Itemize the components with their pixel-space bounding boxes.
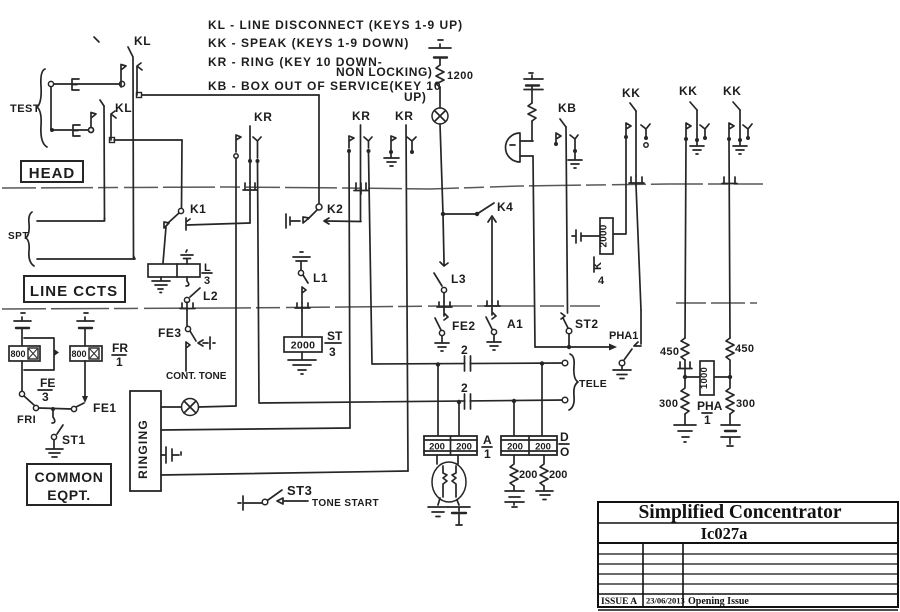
ground under relay L3: [152, 277, 170, 293]
relay FR coil box with 800: [70, 346, 102, 361]
K2 arm: [308, 210, 317, 219]
wire: K4 junction to pivot: [443, 213, 477, 215]
svg-text:KB: KB: [558, 101, 577, 115]
svg-text:23/06/2013: 23/06/2013: [646, 596, 685, 606]
RINGING box: [130, 391, 161, 491]
svg-text:1200: 1200: [447, 70, 473, 82]
svg-text:FRI: FRI: [17, 414, 36, 426]
svg-text:2: 2: [461, 343, 468, 357]
svg-text:D: D: [560, 430, 569, 444]
svg-text:200: 200: [549, 469, 567, 481]
wire: lamp to KR1 left stem: [199, 406, 237, 407]
key KK3 right arrow contact: [743, 124, 752, 137]
wire: test vertical joining pair: [50, 87, 52, 130]
wire: KK2 left stem long down (left divider): [685, 141, 686, 338]
svg-text:KK: KK: [622, 86, 641, 100]
key PHA1 pivot: [619, 360, 625, 366]
resistor 450 right: [726, 338, 734, 377]
key KR1 main stem: [249, 126, 251, 183]
transformer / tube under relay A: [432, 455, 466, 502]
K1 pivot: [178, 208, 183, 213]
key PHA1 contact from above: [634, 310, 641, 346]
bell terminals: [520, 141, 533, 156]
svg-text:450: 450: [735, 343, 754, 355]
svg-text:200: 200: [507, 442, 523, 453]
relay FE coil box with 800: [9, 346, 40, 361]
svg-text:EQPT.: EQPT.: [47, 487, 90, 503]
label A/1: [482, 433, 492, 461]
wire: left divider to right divider through PHA/1: [685, 376, 730, 378]
label K/4 (vertical): [592, 257, 605, 287]
wire: K1 left contact down to relay L3: [163, 227, 166, 263]
ground under FE2: [435, 336, 449, 351]
svg-text:Ic027a: Ic027a: [701, 524, 748, 543]
FE3 arm: [190, 331, 196, 341]
contact bar A1 on lower bus: [485, 301, 500, 309]
svg-text:PHA1: PHA1: [609, 330, 638, 342]
wire: KR1 main down to K1 wire: [249, 194, 251, 223]
svg-text:1: 1: [704, 413, 711, 427]
key KK3 left flag contact: [729, 123, 734, 137]
K1 arm: [168, 213, 179, 223]
brace TELE: [569, 354, 578, 410]
contact bar KK1 on upper bus: [629, 176, 644, 185]
wire: KK1 main down to PHA1 contact: [636, 185, 641, 310]
ST3 right contact arrow: [277, 498, 308, 504]
contact bar L3 on lower bus: [437, 302, 452, 310]
ground above L3 right cell: [181, 250, 193, 264]
wire: FE relay to FRI switch: [21, 361, 23, 391]
ground under KK3 main: [733, 141, 747, 154]
battery under transformer right leg: [448, 500, 470, 511]
wire: KR1 left stem long down to lamp wire: [235, 158, 237, 406]
key KR3 left flag contact: [391, 136, 396, 152]
wire: upper tele junction down to relay A left: [437, 365, 439, 437]
wire: KL node feed down to K2: [318, 95, 320, 203]
key KR3 main stem long down to tone-start corner: [406, 125, 408, 471]
K1 right contact flag: [186, 218, 190, 230]
wire: resistor to bell: [531, 121, 533, 141]
label L/3: [202, 262, 212, 287]
title block outer frame: [598, 502, 898, 610]
svg-text:FE1: FE1: [93, 401, 117, 415]
svg-text:KR: KR: [395, 109, 414, 123]
node right divider: [728, 375, 732, 379]
ground under relay 2000: [288, 352, 316, 374]
jack symbol E lower: [73, 125, 80, 136]
svg-text:KK - SPEAK (KEYS 1-9 DOWN): KK - SPEAK (KEYS 1-9 DOWN): [208, 36, 409, 50]
svg-text:ST2: ST2: [575, 317, 599, 331]
relay coil box 2000: [284, 337, 322, 352]
svg-text:L3: L3: [451, 272, 466, 286]
wire: bar down to relay 2000: [301, 311, 303, 337]
brace for SPT: [26, 212, 34, 266]
slow-release bracket around FE: [24, 338, 54, 370]
key KK2 left flag contact: [686, 123, 691, 137]
contact bar KR2 on upper bus: [354, 183, 368, 194]
resistor 200 under D/O left: [510, 455, 518, 486]
svg-text:ST: ST: [327, 329, 343, 343]
key FE2: flag and arm: [435, 310, 448, 330]
wire: K1 feed from KL lower: [181, 140, 184, 208]
key KB right arrow contact: [570, 135, 578, 150]
label ST/3: [325, 329, 343, 359]
ground above L1: [293, 252, 310, 270]
svg-text:A1: A1: [507, 317, 523, 331]
wire: FRI to FE1 with junction: [39, 408, 72, 409]
svg-text:FE3: FE3: [158, 326, 182, 340]
ground under ST1: [46, 440, 63, 457]
contact bar L1 on lower bus: [295, 303, 310, 311]
svg-text:200: 200: [535, 442, 551, 453]
wire: KK1 left stem down to relay K/4: [612, 139, 626, 234]
contact bar for L2 on bus: [180, 302, 195, 310]
svg-text:CONT. TONE: CONT. TONE: [166, 371, 227, 382]
contact bar KK3 on upper bus: [722, 177, 737, 184]
svg-text:3: 3: [329, 345, 336, 359]
svg-text:1: 1: [116, 355, 123, 369]
open circle lower tele end: [562, 397, 568, 403]
K2 left contact arrow: [303, 217, 309, 223]
svg-text:FE2: FE2: [452, 319, 476, 333]
svg-text:Simplified Concentrator: Simplified Concentrator: [638, 502, 841, 523]
resistor 300 left: [681, 377, 689, 414]
wire: upper dashed bus line: [2, 184, 763, 189]
key KL upper: right arrow contact: [137, 63, 142, 95]
node K4 junction: [441, 212, 445, 216]
key KL lower: left flag contact: [91, 113, 96, 128]
ground under A1: [487, 335, 501, 350]
svg-text:UP): UP): [404, 90, 426, 104]
battery above relay FE: [14, 313, 31, 321]
key KL lower: main stem: [103, 106, 106, 220]
capacitor 2 (upper): [465, 356, 471, 371]
wire: KL upper node to K2 column: [142, 94, 319, 96]
wire: lower tele junction down to relay D/O left: [513, 401, 515, 436]
contact bar KR1 on upper bus: [243, 183, 257, 194]
wire: lower dashed bus line right segment: [676, 302, 757, 304]
key FE1: pivot and arm: [71, 406, 76, 411]
ground under left divider: [674, 414, 696, 442]
svg-text:SPT: SPT: [8, 231, 29, 242]
key KL upper: actuator tick: [94, 37, 99, 42]
label PHA/1: [697, 399, 723, 427]
key L2: pivot: [184, 297, 189, 302]
FE3 pivot: [185, 326, 190, 331]
K2 right contact arrow: [324, 218, 329, 224]
svg-text:KL - LINE DISCONNECT (KEYS 1-: KL - LINE DISCONNECT (KEYS 1-9 UP): [208, 18, 463, 32]
key L3: pivot: [441, 287, 446, 292]
key KK1 actuator tick: [630, 103, 636, 111]
key KB actuator tick: [560, 119, 566, 127]
svg-text:200: 200: [456, 442, 472, 453]
key switch K1: [163, 140, 250, 263]
K2 pivot: [316, 204, 322, 210]
key KL upper: left flag contact: [121, 65, 126, 88]
svg-text:NON LOCKING): NON LOCKING): [336, 65, 433, 79]
wire: ringing box to lamp: [161, 406, 181, 408]
wire: K2 right contact to KR2 main: [325, 220, 361, 223]
svg-text:3: 3: [204, 275, 210, 287]
svg-text:KR: KR: [254, 110, 273, 124]
wire: ST2 to PHA1 feed: [568, 334, 570, 347]
battery-ground under right divider: [721, 414, 740, 425]
key KB main stem down to ST2: [566, 127, 568, 313]
svg-text:TEST: TEST: [10, 103, 40, 115]
svg-text:KK: KK: [723, 84, 742, 98]
COMMON EQPT box: [27, 464, 111, 505]
key KK1 left flag contact: [626, 123, 631, 135]
wire: L2 bar down to FE3: [186, 310, 188, 326]
svg-text:FE: FE: [40, 376, 55, 390]
key KL lower: actuator tick: [100, 100, 104, 106]
capacitor at relay K/4: [572, 230, 600, 243]
svg-text:1000: 1000: [699, 367, 710, 389]
svg-text:K1: K1: [190, 202, 206, 216]
key A1 pivot: [491, 329, 496, 334]
node left divider: [683, 375, 687, 379]
brace for TEST: [37, 69, 47, 147]
wire: lower tele junction down to relay A right: [458, 402, 460, 436]
key KR2 left flag contact: [349, 136, 354, 148]
wire: bell column down to PHA1 feed: [533, 156, 535, 347]
svg-text:300: 300: [736, 398, 755, 410]
capacitor 2 (lower): [465, 394, 471, 409]
wire: upper tele wire junctions: [436, 362, 440, 366]
svg-text:TONE START: TONE START: [312, 498, 379, 509]
wire: lower dashed bus line: [2, 306, 600, 309]
key KR2 right arrow contact: [364, 137, 372, 148]
resistor 300 right: [726, 377, 734, 414]
ground under KK2 main: [690, 141, 704, 154]
LINE CCTS box: [24, 276, 125, 302]
key FRI: pivot and arm: [19, 391, 24, 396]
key KR3 right arrow contact: [407, 137, 416, 152]
FE3 right contact arrow and cell: [198, 337, 215, 349]
wire: KR2 left stem long down then left to ringing: [349, 153, 350, 428]
key KR1 right arrow contact: [253, 137, 261, 158]
resistor 200 under D/O right: [540, 455, 548, 486]
battery-ground under left 200: [505, 486, 524, 507]
wire: L3 pivot down to bus bar: [443, 293, 445, 302]
svg-text:200: 200: [519, 469, 537, 481]
label FE/3: [38, 376, 55, 404]
key L1 pivot: [298, 270, 303, 275]
wire: K4 junction down to L3 key: [443, 214, 444, 261]
svg-text:K4: K4: [497, 200, 513, 214]
open circle upper tele end: [562, 360, 568, 366]
wire: FR relay down to FE1 arrow: [84, 361, 86, 398]
svg-text:450: 450: [660, 346, 679, 358]
lamp (ring tone): [182, 399, 199, 416]
svg-text:RINGING: RINGING: [136, 419, 150, 479]
wiper triangle on FE bracket: [54, 349, 59, 356]
wire: SPT upper lead: [37, 218, 105, 221]
wire: KR1 right stem long down then right (lower tele wire): [258, 163, 566, 403]
key switch FE3: [158, 326, 215, 371]
svg-text:2000: 2000: [291, 340, 316, 352]
node: KL lower square: [110, 138, 115, 143]
resistor (bell column): [528, 103, 536, 121]
svg-text:KR: KR: [352, 109, 371, 123]
wire: lower tele wire junctions: [457, 400, 461, 404]
battery above relay FR: [77, 313, 94, 321]
svg-text:LINE CCTS: LINE CCTS: [30, 283, 118, 300]
svg-text:L2: L2: [203, 289, 218, 303]
svg-text:TELE: TELE: [579, 378, 607, 390]
svg-text:PHA: PHA: [697, 399, 723, 413]
wire: upper tele junction down to relay D/O right: [541, 364, 543, 437]
svg-text:200: 200: [429, 442, 445, 453]
key PHA1 arm: [624, 349, 632, 360]
key L1 lower flag contact: [302, 287, 306, 303]
resistor 450 left: [681, 338, 689, 360]
svg-text:ST1: ST1: [62, 433, 86, 447]
HEAD box: [21, 161, 83, 182]
cell for ST3: [238, 496, 262, 510]
jack symbol E upper: [72, 79, 79, 90]
key ST2: flag: [561, 313, 565, 319]
label D/O: [559, 430, 569, 459]
FE3 left flag contact: [186, 342, 190, 371]
key FE2 pivot: [439, 330, 444, 335]
battery top (1200 col): [429, 40, 451, 48]
relay PHA/1 box: [700, 361, 714, 395]
wire: lamp down to K4 junction: [440, 124, 443, 214]
wire: resistor to lamp: [439, 87, 441, 108]
svg-text:800: 800: [72, 349, 87, 359]
key KB left flag contact: [556, 133, 561, 143]
svg-text:COMMON: COMMON: [35, 469, 104, 485]
key KL upper: main stem: [128, 47, 134, 259]
lamp (supervisory): [432, 108, 448, 124]
ground under transformer left leg: [428, 498, 448, 517]
svg-text:FR: FR: [112, 341, 128, 355]
wire: ringing box bottom output: [161, 471, 408, 475]
ground under PHA1: [613, 366, 631, 379]
wire: KK3 left stem long down (right divider): [729, 141, 730, 338]
wire: KL lower node to K1 column: [114, 139, 182, 141]
battery top (bell column): [524, 73, 543, 79]
svg-text:K2: K2: [327, 202, 343, 216]
key ST2: arm: [563, 318, 568, 328]
bell / receiver symbol: [506, 133, 521, 162]
svg-text:KL: KL: [115, 101, 132, 115]
key ST3 pivot and arm: [262, 499, 268, 505]
key ST1: arm and pivot: [57, 425, 63, 434]
svg-text:Opening Issue: Opening Issue: [688, 596, 749, 607]
key ST2 pivot: [566, 328, 572, 334]
wire: PHA1 feed horizontal with arrow: [535, 346, 611, 348]
key KK2 right arrow contact: [700, 124, 709, 137]
key KK1 main stem: [635, 111, 637, 176]
svg-text:800: 800: [11, 349, 26, 359]
capacitor at ringing box lower: [161, 447, 181, 463]
relay L3 coil box: [148, 264, 200, 277]
wire: SPT lower lead: [37, 256, 135, 259]
svg-text:4: 4: [598, 275, 605, 287]
svg-text:1: 1: [484, 447, 491, 461]
resistor 1200: [436, 65, 444, 87]
key L2: arm: [190, 288, 200, 297]
wire: test lower pair with jack E: [50, 128, 54, 132]
K4 arm: [477, 203, 494, 214]
svg-text:O: O: [560, 445, 569, 459]
label FR/1: [112, 341, 128, 369]
wire: KR2 right stem long down then right (upper tele wire): [369, 153, 566, 364]
key KR1 left flag contact: [236, 135, 241, 152]
K2 cell symbol: [286, 214, 300, 228]
svg-text:ST3: ST3: [287, 483, 312, 498]
key L3: upper arrow contact: [440, 261, 448, 266]
svg-text:KK: KK: [679, 84, 698, 98]
key KK3 actuator tick: [733, 102, 740, 110]
hook from junction to ST1: [52, 411, 55, 423]
key L1 arm: [303, 275, 308, 283]
wire: K1 right contact to KR1 stem: [187, 223, 250, 225]
key L2: hook from relay: [186, 277, 189, 286]
key A1: flag and arm: [486, 309, 496, 329]
wire: A1 column with up arrow: [488, 216, 496, 301]
K1 left contact arrow: [164, 222, 169, 228]
svg-text:HEAD: HEAD: [29, 165, 76, 182]
key KK3 main stem: [739, 110, 741, 139]
svg-text:300: 300: [659, 398, 678, 410]
svg-text:A: A: [483, 433, 492, 447]
wire: ringing box middle output: [161, 428, 350, 430]
ground under KR3 left contact: [384, 152, 399, 166]
contact bar below left 450: [678, 360, 692, 377]
key L3: arm: [434, 273, 442, 286]
ground under right 200: [536, 486, 553, 500]
wire: test upper pair with jack E: [48, 81, 53, 86]
key KK1 right arrow contact: [641, 124, 650, 137]
svg-text:2: 2: [461, 381, 468, 395]
key KR2 main stem: [360, 125, 362, 221]
ground under KB right contact: [568, 153, 582, 168]
svg-text:L1: L1: [313, 271, 328, 285]
svg-text:3: 3: [42, 390, 49, 404]
svg-text:ISSUE A: ISSUE A: [601, 597, 637, 607]
key KL lower: right arrow contact: [111, 111, 116, 140]
svg-text:KL: KL: [134, 34, 151, 48]
node: KL upper square: [137, 93, 142, 98]
key KK2 main stem: [696, 110, 698, 139]
key KK2 actuator tick: [690, 102, 697, 110]
